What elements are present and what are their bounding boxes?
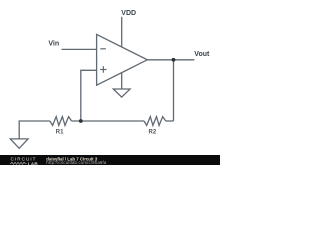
wire noninverting input to node A [81, 70, 97, 121]
wire R2 to feedback corner [166, 120, 174, 122]
svg-text:Vout: Vout [194, 51, 210, 58]
svg-text:R1: R1 [56, 130, 64, 136]
wire feedback from output node down to R2 [173, 60, 175, 121]
op-amp plus pin marker [100, 66, 106, 72]
svg-text:VDD: VDD [121, 10, 136, 17]
svg-text:R2: R2 [149, 130, 157, 136]
op-amp U1 [97, 34, 148, 85]
resistor R2 [144, 117, 166, 126]
wire node A between R1 and R2 [72, 120, 144, 122]
svg-text:Vin: Vin [48, 40, 59, 47]
ground op-amp supply [113, 89, 130, 97]
svg-text:http://circuitlab.com/c/9ha9fa: http://circuitlab.com/c/9ha9fa [46, 160, 107, 165]
wire left ground to R1 [19, 121, 50, 139]
footer watermark bar [0, 155, 220, 165]
ground left [10, 139, 28, 148]
junction output node dot [172, 58, 176, 62]
footer logo resistor zigzag [10, 162, 27, 164]
resistor R1 [50, 117, 72, 126]
junction node A dot [79, 119, 83, 123]
op-amp minus pin marker [100, 48, 106, 50]
wire VDD supply [121, 17, 123, 47]
wire op-amp negative supply stub [121, 72, 123, 89]
svg-text:LAB: LAB [28, 161, 39, 165]
wire Vin to inverting input [62, 48, 97, 50]
wire output to Vout [147, 59, 194, 61]
